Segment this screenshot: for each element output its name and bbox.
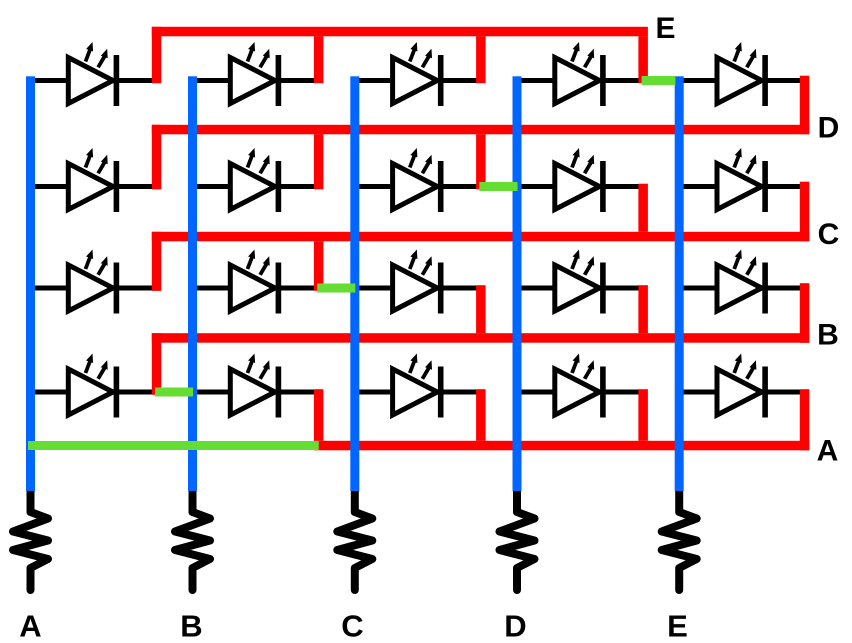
svg-text:C: C [341, 609, 363, 643]
svg-text:D: D [504, 609, 526, 643]
svg-text:B: B [180, 609, 202, 643]
svg-text:C: C [818, 218, 840, 251]
svg-text:B: B [817, 319, 839, 352]
svg-text:E: E [655, 12, 675, 45]
svg-text:E: E [667, 609, 688, 643]
svg-text:D: D [818, 112, 840, 145]
svg-text:A: A [19, 609, 41, 643]
svg-text:A: A [817, 435, 839, 468]
